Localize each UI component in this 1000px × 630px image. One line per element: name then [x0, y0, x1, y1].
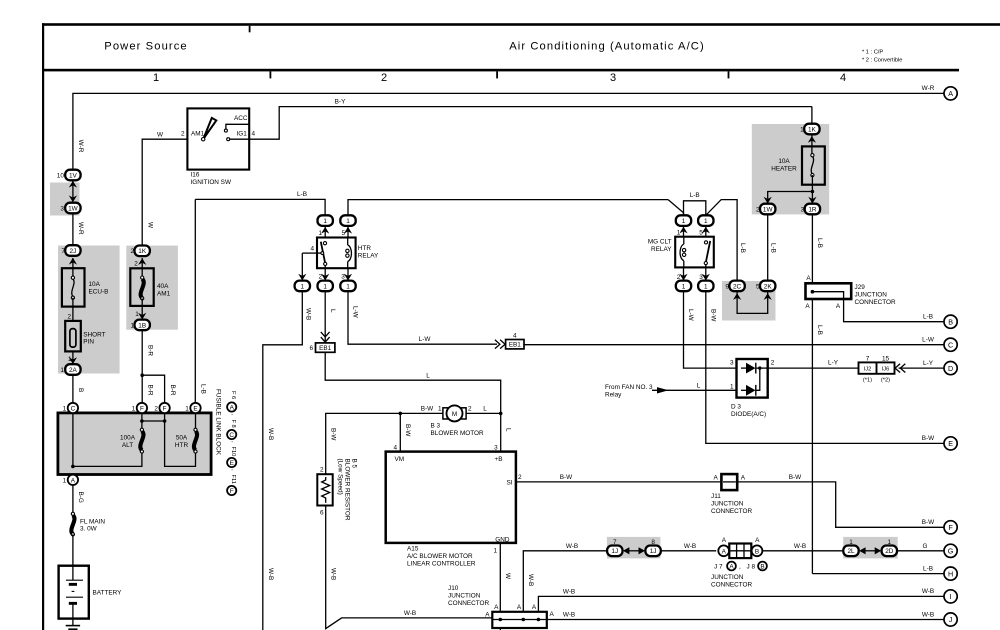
- svg-text:RELAY: RELAY: [651, 246, 672, 253]
- wire W GND to J10: [499, 543, 501, 620]
- junction dot C bus: [71, 465, 75, 469]
- svg-text:B: B: [948, 317, 953, 326]
- ground below battery: [72, 619, 74, 626]
- svg-text:SI: SI: [506, 480, 512, 487]
- svg-text:A15: A15: [407, 546, 419, 553]
- svg-text:1: 1: [63, 406, 67, 413]
- svg-text:JUNCTION: JUNCTION: [855, 291, 888, 298]
- svg-text:1: 1: [438, 406, 442, 413]
- svg-text:W-R: W-R: [77, 140, 84, 153]
- svg-text:C: C: [71, 406, 76, 413]
- svg-text:6: 6: [309, 345, 313, 352]
- svg-text:A: A: [741, 474, 746, 481]
- double chevron into EB1: [321, 332, 330, 342]
- wire W-R horizontal to A: [73, 93, 944, 175]
- svg-text:A: A: [806, 275, 811, 282]
- svg-text:W-B: W-B: [922, 611, 934, 618]
- wire B-G A to FL MAIN: [72, 485, 74, 514]
- connector circle J right edge: [944, 613, 957, 626]
- svg-text:HTR: HTR: [358, 245, 372, 252]
- page frame: top border line: [42, 23, 1000, 26]
- svg-text:BATTERY: BATTERY: [93, 590, 123, 597]
- fuse box 10A ECU-B: [62, 268, 85, 306]
- svg-text:B 5: B 5: [350, 459, 357, 469]
- page frame: left border line: [42, 23, 44, 630]
- svg-text:A: A: [722, 548, 727, 555]
- svg-text:1: 1: [346, 283, 350, 290]
- wire B-W motor pin1 left run: [326, 413, 447, 474]
- fuse element 100A ALT: [140, 431, 143, 450]
- MG CLT coil: [683, 237, 685, 245]
- svg-text:B-R: B-R: [169, 385, 176, 396]
- svg-text:W-B: W-B: [527, 574, 534, 586]
- svg-text:10: 10: [57, 172, 65, 179]
- terminal F1: [132, 403, 147, 413]
- svg-text:FL MAIN: FL MAIN: [80, 519, 105, 526]
- svg-text:A: A: [532, 604, 537, 611]
- fuse element heater: [811, 157, 813, 174]
- connector 2K: [756, 281, 775, 292]
- svg-text:,: ,: [739, 563, 741, 570]
- wire W-R 1W to 2J: [72, 213, 74, 250]
- battery internal wire: [72, 566, 74, 580]
- svg-text:3: 3: [610, 72, 616, 84]
- double chevron into IJ6: [895, 364, 905, 373]
- svg-text:2L: 2L: [847, 548, 855, 555]
- gray box heater: [752, 124, 829, 214]
- arrow into 1B: [138, 313, 146, 320]
- svg-text:W-B: W-B: [563, 588, 575, 595]
- MG CLT fork diagonal right: [706, 200, 737, 281]
- connector oval pin3 bottom: [340, 281, 355, 292]
- connector 1R: [801, 204, 820, 215]
- svg-text:9: 9: [725, 283, 729, 290]
- svg-text:CONNECTOR: CONNECTOR: [448, 600, 489, 607]
- wire L EB1 to blower junction: [325, 352, 501, 413]
- svg-text:D: D: [948, 364, 953, 373]
- junction dot at VM branch: [399, 412, 403, 416]
- blower resistor B5 box: [317, 474, 332, 505]
- gray box 1J pair: [607, 537, 661, 559]
- EB1 ground box 4: [506, 340, 524, 349]
- svg-text:IG1: IG1: [237, 131, 248, 138]
- svg-text:1: 1: [346, 218, 350, 225]
- svg-text:A/C BLOWER MOTOR: A/C BLOWER MOTOR: [407, 553, 473, 560]
- J11 junction connector box: [721, 474, 737, 490]
- svg-text:1: 1: [682, 218, 686, 225]
- svg-text:B: B: [77, 388, 84, 392]
- svg-text:B-G: B-G: [77, 492, 84, 503]
- J10 junction dots: [499, 618, 503, 622]
- connector oval pin4 bottom: [295, 281, 310, 292]
- U link below 2C 2K: [737, 291, 768, 313]
- svg-text:L-B: L-B: [739, 243, 746, 253]
- svg-text:40A: 40A: [157, 283, 169, 290]
- connector 2J: [61, 245, 80, 256]
- wire row J from J10 to J: [547, 619, 944, 621]
- MG CLT fork diagonal left: [668, 200, 683, 216]
- connector 1J right: [645, 539, 660, 556]
- svg-text:1: 1: [153, 72, 159, 84]
- connector circle F right edge: [944, 521, 957, 534]
- fuse element ECU-B: [72, 279, 74, 296]
- svg-text:W-B: W-B: [329, 568, 336, 580]
- svg-text:J: J: [949, 615, 953, 624]
- svg-text:W-B: W-B: [684, 543, 696, 550]
- svg-text:2A: 2A: [69, 367, 78, 374]
- svg-text:2: 2: [381, 72, 387, 84]
- EB1 ground box 6: [316, 343, 335, 352]
- wire B-W SI row: [516, 482, 944, 527]
- connector oval MG pin1 top: [676, 215, 691, 226]
- ignition lever: [203, 118, 216, 139]
- svg-text:1: 1: [493, 548, 497, 555]
- arrow into 1R: [808, 197, 816, 204]
- svg-text:1: 1: [849, 539, 853, 546]
- wire 1K to heater fuse: [811, 134, 813, 155]
- junction dot at +B branch: [499, 412, 503, 416]
- svg-text:W-B: W-B: [563, 612, 575, 619]
- MG CLT fork bridge: [684, 201, 706, 216]
- svg-text:W-B: W-B: [267, 428, 274, 440]
- controller A15 box: [386, 452, 516, 543]
- arrow below 1K: [138, 258, 146, 265]
- svg-text:1: 1: [63, 477, 67, 484]
- wire L-B HTR pin5 to MG CLT fork: [348, 200, 668, 216]
- svg-text:3: 3: [730, 360, 734, 367]
- svg-text:M: M: [452, 411, 457, 418]
- svg-text:IJ2: IJ2: [864, 367, 872, 373]
- J29 junction connector box: [806, 283, 852, 299]
- internal wire F1 to ALT fuse top: [141, 413, 143, 430]
- svg-text:4: 4: [393, 444, 397, 451]
- arrow into pin5 oval: [344, 227, 352, 234]
- svg-text:L-B: L-B: [770, 243, 777, 253]
- svg-text:* 1 : C/P: * 1 : C/P: [862, 50, 883, 56]
- svg-text:2: 2: [756, 206, 760, 213]
- wire L-B E to relay level: [194, 199, 196, 403]
- svg-text:2: 2: [518, 474, 522, 481]
- svg-text:Air Conditioning (Automatic A/: Air Conditioning (Automatic A/C): [509, 41, 705, 53]
- svg-text:LINEAR CONTROLLER: LINEAR CONTROLLER: [407, 561, 476, 568]
- connector 2L: [843, 539, 858, 556]
- svg-text:B-W: B-W: [922, 519, 935, 526]
- svg-text:E: E: [230, 460, 234, 467]
- internal wire C to A with bus to 100A ALT: [73, 413, 142, 466]
- connector circle D right edge: [944, 362, 957, 375]
- arrow pair between 2L 2D: [859, 547, 866, 554]
- svg-text:SHORT: SHORT: [83, 332, 105, 339]
- svg-text:1: 1: [323, 218, 327, 225]
- arrow on fan wire: [657, 387, 669, 393]
- wire FL MAIN to battery: [72, 534, 74, 566]
- wire B-Y corner to 1K: [811, 107, 813, 129]
- wire heater fuse down with branch: [811, 175, 813, 204]
- wire row I riser from J10: [538, 596, 944, 619]
- wire pin4 to bottom oval: [302, 252, 317, 254]
- connector 1K AM1: [130, 246, 149, 257]
- svg-text:15: 15: [882, 355, 890, 362]
- svg-text:2: 2: [468, 406, 472, 413]
- diode internal join: [756, 368, 760, 390]
- terminal C: [63, 403, 78, 413]
- wire L-W MG pin2 to diode pin3: [684, 291, 737, 368]
- svg-text:B-W: B-W: [709, 309, 716, 322]
- svg-text:2: 2: [154, 406, 158, 413]
- svg-text:E: E: [193, 406, 197, 413]
- arrow into pin4 oval: [298, 274, 306, 281]
- arrow into 1V: [69, 181, 77, 188]
- svg-text:L-W: L-W: [419, 336, 432, 343]
- wire W-B row G right segment: [762, 550, 843, 552]
- svg-text:A: A: [230, 404, 235, 411]
- svg-text:B: B: [755, 548, 759, 555]
- fuse element 50A HTR: [194, 431, 197, 450]
- svg-text:10A: 10A: [89, 281, 101, 288]
- svg-text:10A: 10A: [778, 158, 790, 165]
- wire between 1V and 1W: [72, 175, 74, 208]
- J10 junction connector box: [492, 612, 547, 628]
- wire row H to circle H: [812, 573, 944, 575]
- svg-text:2K: 2K: [764, 283, 773, 290]
- wire L-W pin3 oval right run: [348, 291, 497, 344]
- svg-text:A: A: [494, 604, 499, 611]
- svg-text:W-B: W-B: [267, 568, 274, 580]
- wire L-B 1W to 2K: [767, 214, 769, 280]
- column tick 2|3: [496, 71, 498, 78]
- fusible link FL MAIN: [71, 515, 74, 534]
- svg-text:1: 1: [135, 311, 139, 318]
- gray box AM1 column: [126, 246, 178, 330]
- arrow into 1K heater: [808, 136, 816, 143]
- diode bottom element: [746, 385, 756, 396]
- wire L to controller +B: [500, 413, 502, 451]
- page frame: header separator line: [42, 69, 959, 72]
- svg-text:* 2 : Convertible: * 2 : Convertible: [862, 58, 902, 64]
- svg-text:A: A: [550, 611, 555, 618]
- svg-text:L-B: L-B: [923, 314, 933, 321]
- arrow into 2K: [764, 293, 772, 300]
- svg-text:I16: I16: [191, 172, 200, 179]
- wire W-B resistor to J10: [326, 506, 493, 629]
- svg-text:1: 1: [132, 406, 136, 413]
- svg-text:L-W: L-W: [687, 309, 694, 322]
- svg-text:B 3: B 3: [431, 423, 441, 430]
- svg-text:B-W: B-W: [789, 474, 802, 481]
- svg-text:J29: J29: [855, 284, 866, 291]
- svg-text:2: 2: [130, 248, 134, 255]
- terminal A bottom: [63, 475, 78, 485]
- wire W-B J10 riser to row G corner: [523, 551, 528, 620]
- wire W ignition AM1 to 1K: [142, 139, 187, 251]
- arrow into 1W: [69, 195, 77, 202]
- svg-text:ACC: ACC: [234, 115, 248, 122]
- svg-text:W: W: [504, 573, 511, 580]
- svg-text:L-B: L-B: [816, 238, 823, 248]
- svg-text:1: 1: [130, 322, 134, 329]
- svg-text:1: 1: [730, 384, 734, 391]
- connector 1J left: [607, 539, 622, 556]
- wire pin2 to bottom oval: [324, 268, 326, 280]
- svg-text:G: G: [923, 543, 928, 550]
- arrow into pin1 oval: [321, 227, 329, 234]
- connector 1B: [130, 320, 149, 331]
- wire L-Y diode pin2 to IJ box: [768, 367, 859, 369]
- ignition switch I16 box: [187, 108, 249, 169]
- svg-text:BLOWER RESISTOR: BLOWER RESISTOR: [343, 459, 350, 521]
- internal wire E to HTR fuse top: [195, 413, 197, 430]
- svg-text:3: 3: [494, 444, 498, 451]
- svg-text:1K: 1K: [138, 248, 147, 255]
- svg-text:5: 5: [341, 230, 345, 237]
- svg-text:1R: 1R: [808, 206, 817, 213]
- connector 1K heater: [800, 124, 819, 135]
- svg-text:1: 1: [682, 283, 686, 290]
- svg-text:L: L: [697, 382, 701, 389]
- svg-text:IJ6: IJ6: [882, 367, 890, 373]
- svg-text:5: 5: [756, 283, 760, 290]
- connector 2A: [60, 364, 80, 375]
- connector 1W: [756, 204, 775, 215]
- arrow into 2C: [733, 293, 741, 300]
- svg-text:2: 2: [771, 360, 775, 367]
- svg-text:JUNCTION: JUNCTION: [448, 593, 481, 600]
- wire L-W EB1 to C: [524, 344, 944, 346]
- svg-text:A: A: [755, 537, 760, 544]
- svg-text:HEATER: HEATER: [771, 165, 797, 172]
- svg-text:GND: GND: [495, 536, 510, 543]
- svg-text:VM: VM: [395, 456, 405, 463]
- svg-text:From FAN NO. 3: From FAN NO. 3: [605, 384, 653, 391]
- svg-text:B: B: [760, 563, 764, 570]
- wires MG relay to bottom ovals: [683, 267, 685, 280]
- svg-text:1K: 1K: [808, 126, 817, 133]
- svg-text:A: A: [485, 611, 490, 618]
- svg-text:B-W: B-W: [330, 428, 337, 441]
- wire pin1 oval to relay: [324, 226, 326, 238]
- internal bridge F1 F2: [142, 420, 165, 422]
- svg-text:1: 1: [185, 406, 189, 413]
- svg-text:1J: 1J: [650, 548, 657, 555]
- IJ2 IJ6 connector box: [859, 362, 895, 373]
- tick on top line between titles: [249, 26, 251, 33]
- gray box 2L 2D pair: [843, 537, 898, 559]
- svg-text:W-B: W-B: [566, 543, 578, 550]
- svg-text:L-B: L-B: [690, 192, 700, 199]
- svg-text:F10: F10: [230, 447, 236, 457]
- svg-text:2: 2: [320, 466, 324, 473]
- svg-text:1: 1: [888, 539, 892, 546]
- svg-text:L: L: [483, 405, 487, 412]
- fuse box 40A AM1: [130, 268, 153, 306]
- MG CLT switch: [704, 241, 707, 244]
- svg-text:F: F: [230, 488, 234, 495]
- svg-text:5: 5: [699, 229, 703, 236]
- svg-text:7: 7: [61, 248, 65, 255]
- svg-text:C: C: [229, 432, 234, 439]
- svg-text:B-W: B-W: [404, 424, 411, 437]
- svg-text:W-R: W-R: [77, 222, 84, 235]
- svg-text:G: G: [948, 547, 954, 556]
- arrow into 1W: [764, 197, 772, 204]
- svg-text:2C: 2C: [733, 283, 742, 290]
- svg-text:W-B: W-B: [305, 308, 312, 320]
- svg-text:B-R: B-R: [147, 345, 154, 356]
- MG CLT relay box: [675, 237, 714, 268]
- svg-text:7: 7: [613, 539, 617, 546]
- diode D3 box: [737, 359, 768, 398]
- J10 internal bus: [492, 619, 547, 621]
- svg-text:1W: 1W: [763, 206, 774, 213]
- svg-text:L-B: L-B: [297, 191, 307, 198]
- HTR relay coil: [347, 238, 349, 246]
- svg-text:2: 2: [318, 273, 322, 280]
- svg-text:1: 1: [704, 283, 708, 290]
- svg-text:RELAY: RELAY: [358, 253, 379, 260]
- connector circle B right edge: [944, 315, 957, 328]
- svg-text:2D: 2D: [885, 548, 894, 555]
- wires ovals to MG relay: [683, 226, 685, 237]
- svg-text:HTR: HTR: [175, 442, 189, 449]
- svg-text:A: A: [948, 89, 953, 98]
- resistor zigzag: [322, 477, 330, 503]
- svg-text:L: L: [504, 428, 511, 432]
- svg-text:J10: J10: [448, 585, 459, 592]
- arrow pair between 1J: [623, 547, 630, 554]
- wire below J10 to ground edge: [499, 628, 501, 630]
- svg-text:3: 3: [801, 206, 805, 213]
- column tick 3|4: [728, 71, 730, 78]
- svg-text:B-R: B-R: [147, 385, 154, 396]
- svg-text:JUNCTION: JUNCTION: [711, 574, 744, 581]
- svg-text:8: 8: [651, 539, 655, 546]
- svg-text:W-B: W-B: [922, 588, 934, 595]
- wire fuse to short pin: [72, 298, 74, 321]
- junction dot B-R branch: [140, 373, 144, 377]
- svg-text:1: 1: [677, 229, 681, 236]
- svg-text:EB1: EB1: [509, 342, 522, 349]
- gray box ECU-B column: [58, 246, 120, 374]
- svg-text:1W: 1W: [68, 205, 79, 212]
- wire short pin to 2A: [72, 351, 74, 369]
- svg-text:1: 1: [704, 218, 708, 225]
- wire 2J to fuse: [72, 258, 74, 277]
- connector 1W: [60, 203, 80, 214]
- fuse element 40A AM1: [141, 279, 144, 298]
- svg-text:1V: 1V: [69, 172, 78, 179]
- wire W-B row G left segment: [528, 550, 607, 552]
- HTR relay switch: [323, 242, 326, 245]
- svg-text:4: 4: [252, 131, 256, 138]
- svg-text:FUSIBLE LINK BLOCK: FUSIBLE LINK BLOCK: [215, 389, 222, 456]
- svg-text:(Low Speed): (Low Speed): [336, 459, 343, 495]
- svg-text:2: 2: [181, 131, 185, 138]
- svg-text:F 8: F 8: [230, 420, 236, 428]
- svg-text:CONNECTOR: CONNECTOR: [855, 299, 896, 306]
- svg-text:F11: F11: [230, 475, 236, 484]
- svg-text:L-Y: L-Y: [923, 360, 934, 367]
- svg-text:PIN: PIN: [83, 339, 94, 346]
- svg-text:A: A: [722, 537, 727, 544]
- connector circle A right edge: [944, 87, 957, 100]
- svg-text:2: 2: [67, 313, 71, 320]
- connector oval MG pin5 top: [698, 215, 713, 226]
- wire B-Y IG1 to heater: [249, 107, 812, 140]
- svg-text:CONNECTOR: CONNECTOR: [711, 581, 752, 588]
- svg-text:2J: 2J: [70, 248, 77, 255]
- wire B-R 1B down to F1: [141, 330, 143, 403]
- connector 2C: [725, 281, 744, 292]
